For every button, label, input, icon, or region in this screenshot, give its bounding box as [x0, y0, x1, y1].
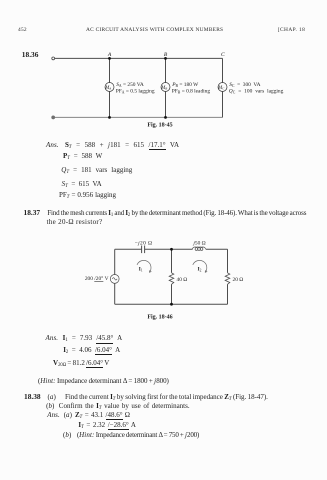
- wire branch A: [109, 58, 111, 82]
- junction dot node B top: [164, 57, 167, 60]
- svg-text:A: A: [107, 52, 112, 58]
- source VS circle: [110, 275, 119, 284]
- wire top mid segment: [145, 248, 193, 250]
- wire left branch lower: [114, 283, 116, 304]
- terminal bottom-left: [52, 116, 55, 119]
- mesh arrow I1: [137, 260, 151, 272]
- junction dot B bottom: [164, 116, 167, 119]
- wire bottom bus: [115, 303, 228, 305]
- problem number 18.38: [24, 393, 41, 400]
- svg-text:Fig. 18-46: Fig. 18-46: [147, 315, 172, 321]
- wire middle branch upper: [171, 249, 173, 272]
- mesh arrow I2: [193, 260, 207, 272]
- problem number 18.37: [24, 209, 41, 216]
- svg-text:MA: MA: [104, 86, 111, 91]
- wire top right segment: [206, 248, 228, 250]
- svg-text:PB = 180 W: PB = 180 W: [171, 82, 199, 88]
- problem number 18.36: [22, 51, 39, 58]
- load MB circle: [161, 83, 170, 92]
- svg-text:j50 Ω: j50 Ω: [192, 240, 205, 246]
- svg-text:I1: I1: [139, 267, 143, 273]
- wire branch C: [222, 58, 224, 82]
- svg-text:SC = 300 VA: SC = 300 VA: [229, 82, 260, 88]
- answer 18.36 line 3: [61, 167, 132, 176]
- resistor R40 zigzag: [169, 273, 174, 285]
- wire middle branch lower: [171, 284, 173, 304]
- svg-text:PFB = 0.8 leading: PFB = 0.8 leading: [172, 89, 211, 95]
- svg-text:C: C: [221, 52, 225, 58]
- answer 18.36 line 1: [46, 142, 59, 149]
- header title: [86, 28, 223, 33]
- header page number: [18, 28, 27, 33]
- answer 18.37 line 2: [63, 347, 120, 356]
- svg-text:40 Ω: 40 Ω: [177, 277, 188, 283]
- inductor L coil: [193, 247, 206, 250]
- terminal top-left: [52, 57, 55, 60]
- load MA circle: [105, 83, 114, 92]
- header chapter: [278, 28, 305, 33]
- answer 18.37 line 3: [53, 360, 109, 369]
- svg-text:20 Ω: 20 Ω: [233, 277, 244, 283]
- answer 18.37 hint: [38, 378, 169, 385]
- wire top bus: [55, 57, 223, 59]
- svg-text:QC = 100 vars lagging: QC = 100 vars lagging: [229, 89, 284, 95]
- capacitor C plates: [141, 246, 143, 254]
- junction dot node A top: [108, 57, 111, 60]
- answer 18.38: [47, 412, 60, 419]
- svg-text:Fig. 18-45: Fig. 18-45: [147, 123, 172, 129]
- junction dot bottom middle: [170, 303, 173, 306]
- wire bottom bus: [55, 116, 223, 118]
- svg-text:MB: MB: [160, 86, 167, 91]
- svg-text:I2: I2: [198, 267, 202, 273]
- svg-text:MC: MC: [217, 86, 225, 91]
- answer 18.36 line 5: [59, 192, 116, 201]
- resistor R20 zigzag: [225, 273, 230, 285]
- answer 18.36 line 4: [62, 181, 102, 190]
- load MC circle: [218, 83, 227, 92]
- svg-text:SA = 250 VA: SA = 250 VA: [116, 82, 144, 88]
- answer 18.37 line 1: [46, 335, 59, 342]
- svg-text:PFA = 0.5 lagging: PFA = 0.5 lagging: [116, 89, 155, 95]
- wire right branch upper: [227, 249, 229, 272]
- Fig. 18-46 circuit schematic: [0, 226, 327, 336]
- svg-text:−j20 Ω: −j20 Ω: [135, 240, 153, 246]
- junction dot A bottom: [108, 116, 111, 119]
- wire top left segment: [115, 248, 142, 250]
- Fig. 18-45 circuit schematic: [0, 0, 327, 140]
- wire branch B: [165, 58, 167, 82]
- answer 18.36 line 2: [63, 153, 102, 162]
- junction dot top middle: [170, 248, 173, 251]
- svg-text:200 /20° V: 200 /20° V: [85, 275, 109, 282]
- wire right branch lower: [227, 284, 229, 304]
- svg-text:B: B: [164, 52, 168, 58]
- wire left branch upper: [114, 249, 116, 274]
